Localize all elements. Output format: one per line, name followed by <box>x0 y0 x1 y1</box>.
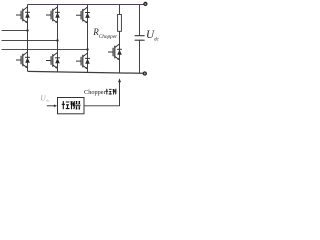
wire: bridge leg 2 vertical <box>57 5 59 72</box>
node: DC- terminal <box>143 72 146 75</box>
wire: chopper IGBT leg <box>119 44 121 73</box>
wire: resistor to chopper IGBT <box>119 31 121 44</box>
wire: controller to chopper gate <box>84 82 120 106</box>
controller text 控制器 (drawn strokes) <box>62 101 81 109</box>
wire: phase B input line <box>2 40 58 42</box>
node A: phase A junction <box>26 29 28 31</box>
controller box <box>58 98 85 114</box>
resistor R_Chopper body <box>118 15 122 32</box>
capacitor C plate top <box>135 35 145 37</box>
capacitor C plate bottom <box>135 39 145 41</box>
wire: phase A input line <box>2 30 28 32</box>
wire: bridge leg 3 vertical <box>87 5 89 73</box>
wire: bridge leg 1 vertical <box>27 5 29 72</box>
IGBT V2 lower leg3 with anti-parallel diode <box>76 53 90 69</box>
IGBT V6 lower leg2 with anti-parallel diode <box>46 53 60 69</box>
IGBT V7 chopper switch with anti-parallel diode <box>108 44 122 60</box>
IGBT V3 upper leg2 with anti-parallel diode <box>46 7 60 23</box>
wire: positive DC bus (top) <box>28 4 144 6</box>
controller input arrowhead <box>54 105 57 108</box>
IGBT V5 upper leg3 with anti-parallel diode <box>76 7 90 23</box>
wire: phase C input line <box>2 49 88 51</box>
wire: negative DC bus (bottom) <box>28 71 144 73</box>
wire: capacitor upper lead <box>139 5 141 36</box>
node C: phase C junction <box>86 48 88 50</box>
wire: controller input with arrow <box>47 105 54 107</box>
chopper gate drive arrowhead <box>118 78 121 82</box>
IGBT V4 lower leg1 with anti-parallel diode <box>16 52 30 68</box>
svg-text:Chopper: Chopper <box>84 89 107 96</box>
IGBT V1 upper leg1 with anti-parallel diode <box>16 7 30 23</box>
node B: phase B junction <box>56 39 58 41</box>
wire: capacitor lower lead <box>139 40 141 73</box>
node: DC+ terminal <box>144 2 147 5</box>
wire: chopper branch upper lead <box>119 5 121 15</box>
